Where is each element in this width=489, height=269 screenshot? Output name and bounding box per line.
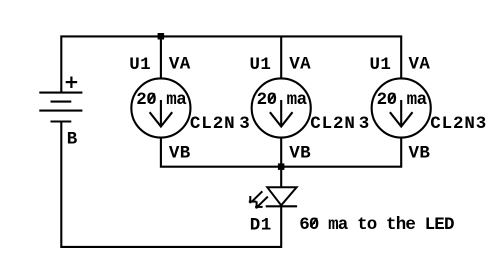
wire source2 bottom stub (280, 138, 282, 167)
svg-text:VB: VB (289, 144, 311, 164)
svg-text:CL2N: CL2N (190, 114, 236, 134)
battery plus sign (66, 77, 78, 89)
svg-text:20 ma: 20 ma (377, 90, 428, 110)
svg-text:VB: VB (409, 144, 431, 164)
current source U1 #3 arrow (390, 100, 413, 127)
battery B (39, 93, 82, 122)
wire bottom bus VB with source1+3 stubs (161, 138, 401, 167)
svg-text:VB: VB (169, 144, 191, 164)
current source U1 #3 circle (372, 78, 431, 137)
svg-text:CL2N: CL2N (430, 114, 476, 134)
svg-text:VA: VA (409, 55, 431, 75)
wire source1 top stub (160, 36, 162, 77)
current source U1 #2 arrow (270, 100, 293, 127)
svg-text:60 ma to the LED: 60 ma to the LED (299, 215, 454, 235)
wire top bus VA (61, 36, 401, 92)
svg-text:3: 3 (239, 114, 250, 134)
current source U1 #1 circle (131, 78, 190, 137)
LED light arrow 1 (250, 192, 262, 202)
svg-text:U1: U1 (129, 55, 151, 75)
wire source2 top stub (280, 36, 282, 77)
svg-text:3: 3 (359, 114, 370, 134)
LED D1 cathode bar (266, 205, 297, 207)
node junction dot top (VA at source1) (158, 33, 165, 40)
svg-text:U1: U1 (370, 55, 392, 75)
svg-text:3: 3 (476, 114, 487, 134)
svg-text:20 ma: 20 ma (257, 90, 308, 110)
wire LED anode (280, 167, 282, 187)
svg-text:CL2N: CL2N (310, 114, 356, 134)
current source U1 #1 arrow (150, 100, 173, 127)
svg-text:20 ma: 20 ma (136, 90, 187, 110)
LED light arrow 2 (256, 197, 267, 207)
current source U1 #2 circle (252, 78, 311, 137)
svg-text:VA: VA (289, 55, 311, 75)
node junction dot bottom (VB at LED) (278, 163, 285, 170)
wire LED cathode to battery return (61, 121, 281, 246)
LED D1 triangle (267, 187, 296, 205)
svg-text:U1: U1 (250, 55, 272, 75)
svg-text:D1: D1 (250, 216, 272, 236)
svg-text:B: B (67, 129, 78, 149)
svg-text:VA: VA (169, 55, 191, 75)
slashed-zero strokes (148, 93, 395, 227)
